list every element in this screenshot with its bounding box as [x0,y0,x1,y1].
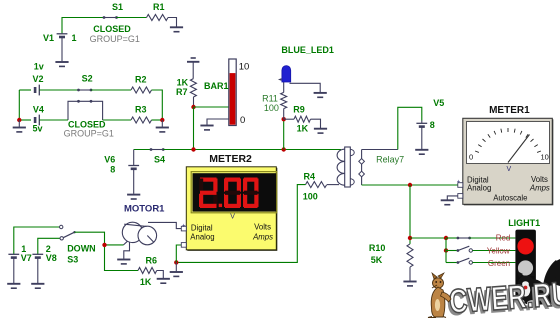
svg-text:+: + [182,224,186,230]
svg-text:10: 10 [239,62,250,73]
svg-text:10: 10 [541,153,549,162]
svg-text:V2: V2 [33,74,44,84]
svg-text:Yellow: Yellow [487,247,510,256]
svg-text:V4: V4 [33,105,44,115]
svg-text:Green: Green [488,259,510,268]
svg-text:R9: R9 [293,104,305,114]
svg-text:100: 100 [264,103,279,113]
svg-text:CWER.RU: CWER.RU [448,275,560,319]
svg-text:GROUP=G1: GROUP=G1 [64,129,114,139]
svg-text:BLUE_LED1: BLUE_LED1 [281,45,334,55]
svg-text:S3: S3 [67,255,78,265]
svg-text:Analog: Analog [190,233,214,242]
svg-text:Volts: Volts [254,223,271,232]
svg-text:DOWN: DOWN [67,243,96,253]
svg-text:1v: 1v [34,62,44,72]
svg-text:R4: R4 [304,172,316,182]
svg-text:1K: 1K [140,277,152,287]
svg-text:R7: R7 [176,87,188,97]
svg-text:V1: V1 [43,33,54,43]
svg-text:Relay7: Relay7 [376,155,404,165]
svg-text:100: 100 [303,191,318,201]
svg-text:0: 0 [240,115,245,126]
svg-text:Analog: Analog [467,184,491,193]
svg-text:V6: V6 [104,154,115,164]
svg-text:+: + [457,180,461,186]
svg-text:5K: 5K [371,255,383,265]
svg-text:S2: S2 [82,74,93,84]
svg-text:MOTOR1: MOTOR1 [124,203,165,214]
svg-text:V7: V7 [21,253,32,263]
svg-text:METER1: METER1 [489,105,530,116]
svg-text:METER2: METER2 [209,153,252,165]
svg-text:R3: R3 [135,105,147,115]
svg-text:Amps: Amps [529,184,550,193]
svg-text:8: 8 [430,120,435,130]
svg-text:Digital: Digital [191,223,213,232]
svg-text:CLOSED: CLOSED [93,24,131,34]
svg-text:R10: R10 [369,243,386,253]
svg-text:Red: Red [496,233,511,242]
svg-text:V: V [507,166,512,173]
svg-text:LIGHT1: LIGHT1 [508,218,540,228]
svg-text:V: V [230,213,235,220]
svg-text:8: 8 [110,165,115,175]
svg-text:1: 1 [72,33,77,43]
svg-text:R11: R11 [262,93,278,103]
svg-text:R6: R6 [146,256,158,266]
svg-text:S4: S4 [154,154,165,164]
svg-text:S1: S1 [112,2,123,12]
svg-text:Autoscale: Autoscale [493,193,527,202]
svg-text:1K: 1K [297,123,309,133]
svg-text:BAR1: BAR1 [204,81,229,91]
svg-text:R1: R1 [153,2,165,12]
svg-text:V5: V5 [433,98,444,108]
svg-text:V8: V8 [46,253,57,263]
svg-text:R2: R2 [135,75,147,85]
svg-text:0: 0 [469,153,473,162]
svg-text:GROUP=G1: GROUP=G1 [90,34,140,44]
svg-text:5v: 5v [33,124,43,134]
svg-text:Amps: Amps [252,233,273,242]
